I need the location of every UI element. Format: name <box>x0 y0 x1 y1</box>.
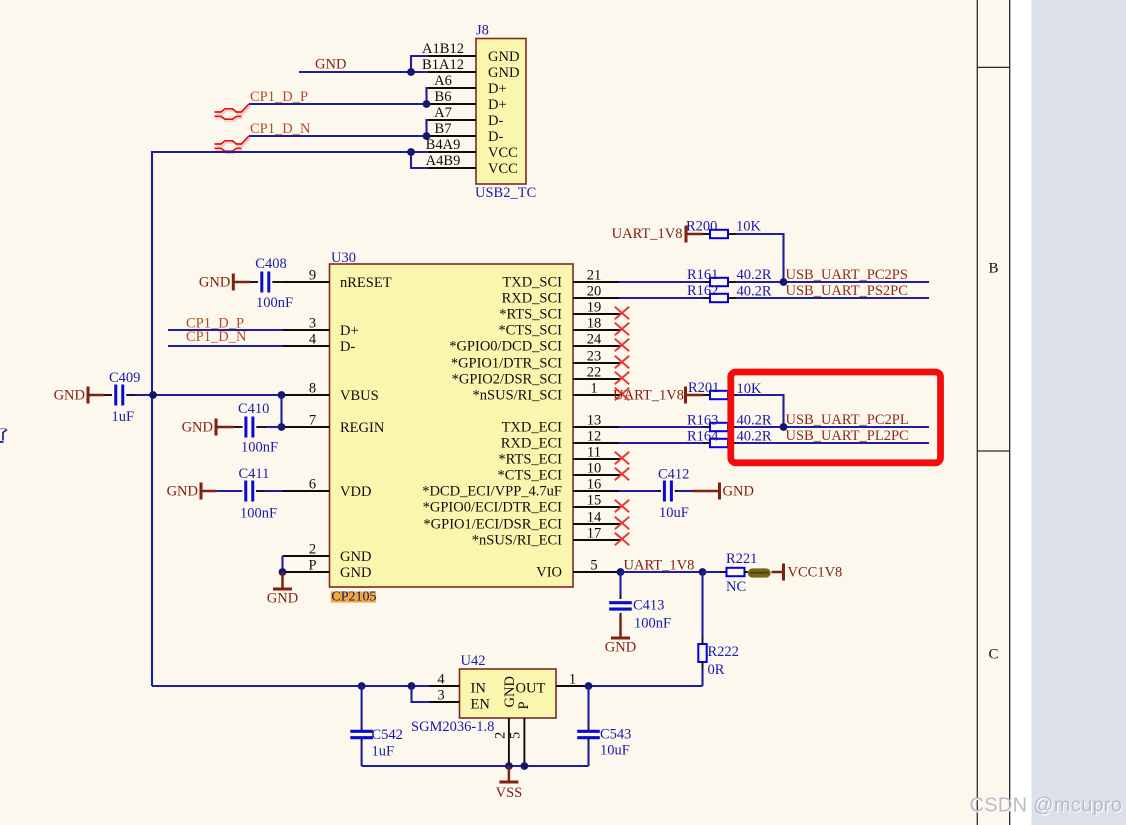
wire C542 bottom <box>361 738 363 741</box>
svg-text:100nF: 100nF <box>241 440 278 456</box>
svg-text:6: 6 <box>309 477 316 493</box>
zone divider tick middle <box>977 450 1009 452</box>
junction VIO/R222 <box>699 568 707 576</box>
svg-text:11: 11 <box>587 445 601 461</box>
U30 pin 7 (REGIN) <box>283 426 330 428</box>
svg-text:*nSUS/RI_SCI: *nSUS/RI_SCI <box>473 388 563 404</box>
U30 pin 9 (nRESET) <box>283 281 330 283</box>
svg-text:nRESET: nRESET <box>340 275 392 291</box>
svg-text:P: P <box>308 558 316 574</box>
svg-text:C409: C409 <box>109 370 140 386</box>
wire CP1_D_P to U30 <box>168 329 283 331</box>
power port UART_1V8 (R200) <box>686 233 703 236</box>
svg-text:22: 22 <box>587 365 602 381</box>
junction TXD_SCI/R200 <box>780 278 788 286</box>
U30 pin 19 (*RTS_SCI) <box>573 313 621 315</box>
svg-text:2: 2 <box>493 732 509 739</box>
C408 plates <box>260 272 263 293</box>
sheet right margin strip <box>1010 0 1032 825</box>
svg-text:UART_1V8: UART_1V8 <box>624 558 695 574</box>
U30 pin 21 (TXD_SCI) <box>573 281 621 283</box>
svg-text:VCC: VCC <box>488 145 518 161</box>
svg-text:8: 8 <box>309 381 316 397</box>
svg-text:4: 4 <box>437 672 445 688</box>
clipped net label fragment at left edge <box>0 428 7 430</box>
resistor R163 <box>703 426 710 428</box>
svg-text:D+: D+ <box>488 97 507 113</box>
ground port C413 <box>620 613 622 617</box>
svg-text:GND: GND <box>723 484 754 500</box>
C543 plates <box>577 730 600 733</box>
svg-text:C411: C411 <box>239 466 270 482</box>
svg-text:C412: C412 <box>658 467 689 483</box>
svg-text:C408: C408 <box>255 256 286 272</box>
wire U30 GND pins <box>281 556 283 572</box>
svg-text:10uF: 10uF <box>659 505 689 521</box>
J8 pin B4A9 (VCC) <box>428 151 476 153</box>
svg-text:A1B12: A1B12 <box>422 41 464 57</box>
svg-text:17: 17 <box>587 526 602 542</box>
svg-text:VDD: VDD <box>340 484 371 500</box>
IC U30 body <box>330 264 574 587</box>
connector J8 body <box>476 39 526 185</box>
svg-text:USB_UART_PS2PC: USB_UART_PS2PC <box>786 283 908 299</box>
C409 plates <box>114 385 117 406</box>
svg-text:100nF: 100nF <box>240 506 277 522</box>
svg-text:*RTS_ECI: *RTS_ECI <box>498 452 562 468</box>
svg-text:3: 3 <box>309 316 316 332</box>
svg-text:GND: GND <box>488 49 519 65</box>
svg-text:A4B9: A4B9 <box>426 153 461 169</box>
regulator U42 body <box>460 669 557 718</box>
svg-text:CP2105: CP2105 <box>331 590 376 605</box>
resistor R222 <box>702 637 704 644</box>
svg-text:RXD_ECI: RXD_ECI <box>501 436 562 452</box>
svg-text:7: 7 <box>309 413 316 429</box>
wire C408 to pin 9 <box>272 281 282 283</box>
svg-text:VCC1V8: VCC1V8 <box>788 565 843 581</box>
U42 pin 4 (IN) <box>430 685 460 687</box>
svg-text:GND: GND <box>488 65 519 81</box>
svg-text:D+: D+ <box>340 323 359 339</box>
junction VCC/J8 <box>407 148 415 156</box>
svg-text:10uF: 10uF <box>600 743 630 759</box>
sheet border inner line <box>976 0 978 825</box>
wire R222 bottom <box>701 669 703 686</box>
capacitor C411 <box>217 490 243 492</box>
svg-text:15: 15 <box>587 493 602 509</box>
wire GND net to J8 <box>299 71 428 73</box>
ground port C410 <box>216 426 233 429</box>
svg-text:D-: D- <box>488 113 503 129</box>
svg-text:*GPIO1/ECI/DSR_ECI: *GPIO1/ECI/DSR_ECI <box>423 517 562 533</box>
U42 pin 1 (OUT) <box>556 685 586 687</box>
svg-text:R164: R164 <box>687 429 719 445</box>
U30 pin 1 (*nSUS/RI_SCI) <box>573 394 621 396</box>
no-connect cross pin 11 <box>615 452 629 465</box>
svg-text:IN: IN <box>471 681 487 697</box>
svg-text:USB_UART_PL2PC: USB_UART_PL2PC <box>786 428 909 444</box>
U30 pin 4 (D-) <box>283 345 330 347</box>
svg-text:C413: C413 <box>633 598 664 614</box>
svg-text:R200: R200 <box>686 219 717 235</box>
svg-text:19: 19 <box>587 300 602 316</box>
resistor R162 <box>703 297 710 299</box>
svg-text:TXD_ECI: TXD_ECI <box>502 420 563 436</box>
wire VCC rail to J8 <box>152 152 428 686</box>
resistor R164 <box>703 442 710 444</box>
wire R200 to TXD_SCI net <box>736 234 784 282</box>
svg-text:R162: R162 <box>687 283 718 299</box>
U30 pin 6 (VDD) <box>283 490 330 492</box>
C412 plates <box>663 481 666 502</box>
differential pair directive CP1_D_P <box>216 106 251 121</box>
svg-text:USB2_TC: USB2_TC <box>475 185 536 201</box>
U30 pin 24 (*GPIO0/DCD_SCI) <box>573 345 621 347</box>
svg-text:10: 10 <box>587 461 602 477</box>
svg-text:*GPIO0/ECI/DTR_ECI: *GPIO0/ECI/DTR_ECI <box>423 500 563 516</box>
junction TXD_ECI/R201 <box>780 423 788 431</box>
zone divider tick top <box>977 66 1009 68</box>
differential pair directive CP1_D_N <box>216 138 251 153</box>
U30 pin 11 (*RTS_ECI) <box>573 458 621 460</box>
junction REGIN node <box>278 423 286 431</box>
resistor R161 <box>703 281 710 283</box>
U30 pin 14 (*GPIO1/ECI/DSR_ECI) <box>573 523 621 525</box>
C410 plates <box>244 417 247 438</box>
capacitor C408 <box>250 281 258 283</box>
wire OUT to R222 <box>586 685 703 687</box>
svg-text:1: 1 <box>569 672 576 688</box>
svg-text:A6: A6 <box>434 73 452 89</box>
no-connect cross pin 19 <box>615 307 629 320</box>
U30 pin 23 (*GPIO1/DTR_SCI) <box>573 362 621 364</box>
J8 pin A1B12 (GND) <box>428 55 476 57</box>
J8 pin B1A12 (GND) <box>428 71 476 73</box>
wire R222 top <box>701 572 703 637</box>
svg-text:EN: EN <box>471 697 491 713</box>
svg-text:*GPIO2/DSR_SCI: *GPIO2/DSR_SCI <box>452 372 563 388</box>
svg-text:CP1_D_N: CP1_D_N <box>186 329 247 345</box>
U30 pin 12 (RXD_ECI) <box>573 442 621 444</box>
svg-text:B6: B6 <box>435 89 452 105</box>
junction rail/EN <box>408 682 416 690</box>
svg-text:RXD_SCI: RXD_SCI <box>502 291 563 307</box>
wire VBUS to REGIN link <box>280 395 282 427</box>
wire RXD_SCI row <box>619 297 703 299</box>
svg-text:REGIN: REGIN <box>340 420 385 436</box>
svg-text:U30: U30 <box>331 250 356 266</box>
U42 pin 3 (EN) <box>430 701 460 703</box>
svg-text:23: 23 <box>587 349 602 365</box>
svg-text:GND: GND <box>182 420 213 436</box>
svg-text:D-: D- <box>488 129 503 145</box>
J8 pin A7 (D-) <box>428 119 476 121</box>
no-connect cross pin 10 <box>615 468 629 481</box>
J8 pin B6 (D+) <box>428 103 476 105</box>
svg-text:SGM2036-1.8: SGM2036-1.8 <box>411 719 494 735</box>
svg-text:18: 18 <box>587 316 602 332</box>
svg-text:GND: GND <box>605 640 636 656</box>
C411 plates <box>244 481 247 502</box>
wire TXD_ECI row <box>619 426 703 428</box>
capacitor C542 <box>350 731 373 737</box>
no-fit marker on R221 <box>748 568 771 577</box>
wire pin16 to C412 <box>619 490 657 492</box>
svg-text:0R: 0R <box>708 662 725 678</box>
resistor R221 <box>720 571 727 573</box>
no-connect cross pin 17 <box>615 533 629 546</box>
U30 pin 5 (VIO) <box>573 571 621 573</box>
svg-text:1uF: 1uF <box>112 409 135 425</box>
value CP2105 (highlighted) <box>331 591 376 602</box>
svg-text:GND: GND <box>54 388 85 404</box>
wire C409 to VBUS <box>126 394 135 396</box>
junction VCC rail / C409 <box>149 391 157 399</box>
wire EN branch <box>412 686 430 702</box>
svg-text:B4A9: B4A9 <box>426 137 461 153</box>
svg-text:CSDN @mcupro: CSDN @mcupro <box>970 795 1123 817</box>
svg-text:21: 21 <box>587 268 602 284</box>
svg-text:2: 2 <box>309 542 316 558</box>
svg-text:CP1_D_N: CP1_D_N <box>250 121 311 137</box>
U30 pin 8 (VBUS) <box>283 394 330 396</box>
wire C410 to REGIN <box>256 426 267 428</box>
no-connect cross pin 15 <box>615 500 629 513</box>
svg-text:*DCD_ECI/VPP_4.7uF: *DCD_ECI/VPP_4.7uF <box>422 484 562 500</box>
C413 plates <box>609 601 632 604</box>
wire USB_UART_PL2PC <box>736 442 929 444</box>
U30 pin 2 (GND) <box>283 555 330 557</box>
U30 pin 22 (*GPIO2/DSR_SCI) <box>573 378 621 380</box>
U30 pin 3 (D+) <box>283 329 330 331</box>
svg-text:D+: D+ <box>488 81 507 97</box>
svg-text:40.2R: 40.2R <box>737 267 772 283</box>
wire CP1_D_N to J8 <box>249 135 428 137</box>
wire VIO to R221 <box>621 571 704 573</box>
svg-text:*GPIO1/DTR_SCI: *GPIO1/DTR_SCI <box>451 356 562 372</box>
junction VIO node <box>617 568 625 576</box>
junction CP1_D_N/J8 <box>423 132 431 140</box>
power port UART_1V8 (R201) <box>686 394 704 397</box>
svg-text:*RTS_SCI: *RTS_SCI <box>499 307 562 323</box>
capacitor C413 <box>609 603 632 609</box>
junction U30 GND <box>279 568 287 576</box>
wire to R221 <box>703 571 721 573</box>
wire VIO to C413 <box>619 572 621 596</box>
svg-text:VIO: VIO <box>536 565 562 581</box>
wire RXD_ECI row <box>619 442 703 444</box>
wire CP1_D_N to U30 <box>168 345 283 347</box>
ground port C409 <box>88 394 104 397</box>
svg-text:C: C <box>988 647 998 663</box>
svg-text:NC: NC <box>726 579 746 595</box>
wire C543 top <box>587 686 589 727</box>
wire C543 bottom <box>588 738 590 741</box>
svg-text:UART_1V8: UART_1V8 <box>612 226 683 242</box>
svg-text:D-: D- <box>340 339 355 355</box>
svg-text:R163: R163 <box>687 413 718 429</box>
svg-text:*GPIO0/DCD_SCI: *GPIO0/DCD_SCI <box>449 339 562 355</box>
wire USB_UART_PC2PS <box>736 281 929 283</box>
capacitor C412 <box>664 481 671 502</box>
red highlight rectangle <box>731 372 941 463</box>
capacitor C409 <box>104 394 112 396</box>
sheet border outer line <box>1009 0 1011 825</box>
svg-text:VCC: VCC <box>488 161 518 177</box>
svg-text:14: 14 <box>587 510 602 526</box>
svg-text:13: 13 <box>587 413 602 429</box>
capacitor C543 <box>577 731 600 737</box>
svg-text:UART_1V8: UART_1V8 <box>613 388 684 404</box>
svg-text:1: 1 <box>590 381 597 397</box>
svg-text:B: B <box>988 261 998 277</box>
svg-text:24: 24 <box>587 332 602 348</box>
svg-text:C410: C410 <box>238 401 269 417</box>
resistor R201 <box>703 394 710 396</box>
svg-text:10K: 10K <box>736 219 762 235</box>
svg-text:TXD_SCI: TXD_SCI <box>502 275 562 291</box>
junction OUT/C543 <box>585 682 593 690</box>
svg-text:100nF: 100nF <box>634 616 671 632</box>
svg-text:GND: GND <box>267 591 298 607</box>
svg-text:GND: GND <box>199 275 230 291</box>
power port VCC1V8 <box>772 571 784 574</box>
junction rail/C542 <box>358 682 366 690</box>
svg-text:R222: R222 <box>708 644 739 660</box>
J8 pin A4B9 (VCC) <box>428 167 476 169</box>
svg-text:*CTS_SCI: *CTS_SCI <box>498 323 562 339</box>
U30 pin 15 (*GPIO0/ECI/DTR_ECI) <box>573 506 621 508</box>
J8 pin B7 (D-) <box>428 135 476 137</box>
app grey panel <box>1032 0 1126 825</box>
U30 pin 16 (*DCD_ECI/VPP_4.7uF) <box>573 490 621 492</box>
wire C412 to ground port <box>675 490 679 492</box>
svg-text:R161: R161 <box>687 267 718 283</box>
svg-text:9: 9 <box>309 268 316 284</box>
U30 pin 20 (RXD_SCI) <box>573 297 621 299</box>
no-connect cross pin 22 <box>615 372 629 385</box>
svg-text:USB_UART_PC2PL: USB_UART_PC2PL <box>786 412 909 428</box>
U30 pin 10 (*CTS_ECI) <box>573 474 621 476</box>
power port VSS <box>508 766 511 782</box>
wire C411 to VDD <box>256 490 266 492</box>
no-connect cross pin 18 <box>615 323 629 336</box>
svg-text:CP1_D_P: CP1_D_P <box>250 89 308 105</box>
wire USB_UART_PS2PC <box>736 297 929 299</box>
svg-text:GND: GND <box>167 484 198 500</box>
svg-text:5: 5 <box>590 558 597 574</box>
svg-text:J8: J8 <box>476 23 489 39</box>
svg-text:VBUS: VBUS <box>340 388 379 404</box>
C542 plates <box>350 730 373 733</box>
svg-text:U42: U42 <box>461 653 486 669</box>
svg-text:USB_UART_PC2PS: USB_UART_PC2PS <box>786 267 908 283</box>
ground port C408 <box>233 281 250 284</box>
U30 pin 13 (TXD_ECI) <box>573 426 621 428</box>
svg-text:C542: C542 <box>372 727 403 743</box>
svg-text:GND: GND <box>340 565 371 581</box>
U30 pin 18 (*CTS_SCI) <box>573 329 621 331</box>
svg-text:4: 4 <box>309 332 317 348</box>
svg-text:OUT: OUT <box>516 681 546 697</box>
wire VCC rail to U42 IN <box>152 685 430 687</box>
junction rail/pin2 <box>505 762 513 770</box>
svg-text:A7: A7 <box>434 105 452 121</box>
U42 pin 5 (P) <box>523 718 525 766</box>
wire TXD_SCI row <box>619 281 703 283</box>
svg-text:C543: C543 <box>600 727 631 743</box>
resistor R200 <box>703 233 710 235</box>
svg-text:12: 12 <box>587 429 602 445</box>
no-connect cross pin 23 <box>615 356 629 369</box>
wire ground rail <box>362 765 589 767</box>
svg-text:VSS: VSS <box>496 785 523 801</box>
svg-text:R221: R221 <box>726 551 757 567</box>
junction VBUS node <box>278 391 286 399</box>
U30 pin 17 (*nSUS/RI_ECI) <box>573 539 621 541</box>
ground port below U30 <box>281 572 284 589</box>
U30 pin P (GND) <box>283 571 330 573</box>
wire R201 to TXD_ECI net <box>736 395 784 427</box>
svg-text:20: 20 <box>587 284 602 300</box>
no-connect cross pin 1 <box>615 388 629 401</box>
svg-text:16: 16 <box>587 477 602 493</box>
junction CP1_D_P/J8 <box>423 100 431 108</box>
J8 pin A6 (D+) <box>428 87 476 89</box>
svg-text:GND: GND <box>315 57 346 73</box>
svg-text:B7: B7 <box>435 121 452 137</box>
svg-text:*nSUS/RI_ECI: *nSUS/RI_ECI <box>472 533 562 549</box>
junction GND/J8 <box>407 68 415 76</box>
svg-text:B1A12: B1A12 <box>422 57 464 73</box>
svg-text:100nF: 100nF <box>256 295 293 311</box>
svg-text:1uF: 1uF <box>372 744 395 760</box>
svg-text:P: P <box>516 701 532 709</box>
capacitor C410 <box>233 426 242 428</box>
wire C542 top <box>361 686 363 727</box>
wire CP1_D_P to J8 <box>249 103 428 105</box>
ground port C411 <box>201 490 217 493</box>
U42 pin 2 (GND) <box>508 718 510 766</box>
no-connect cross pin 24 <box>615 339 629 352</box>
svg-text:*CTS_ECI: *CTS_ECI <box>498 468 563 484</box>
junction rail/pin5 <box>521 762 529 770</box>
svg-text:5: 5 <box>508 732 524 739</box>
ground port C412 <box>692 490 720 493</box>
svg-text:3: 3 <box>437 688 444 704</box>
wire USB_UART_PC2PL <box>736 426 929 428</box>
no-connect cross pin 14 <box>615 517 629 530</box>
svg-text:R201: R201 <box>688 380 719 396</box>
svg-text:GND: GND <box>340 549 371 565</box>
